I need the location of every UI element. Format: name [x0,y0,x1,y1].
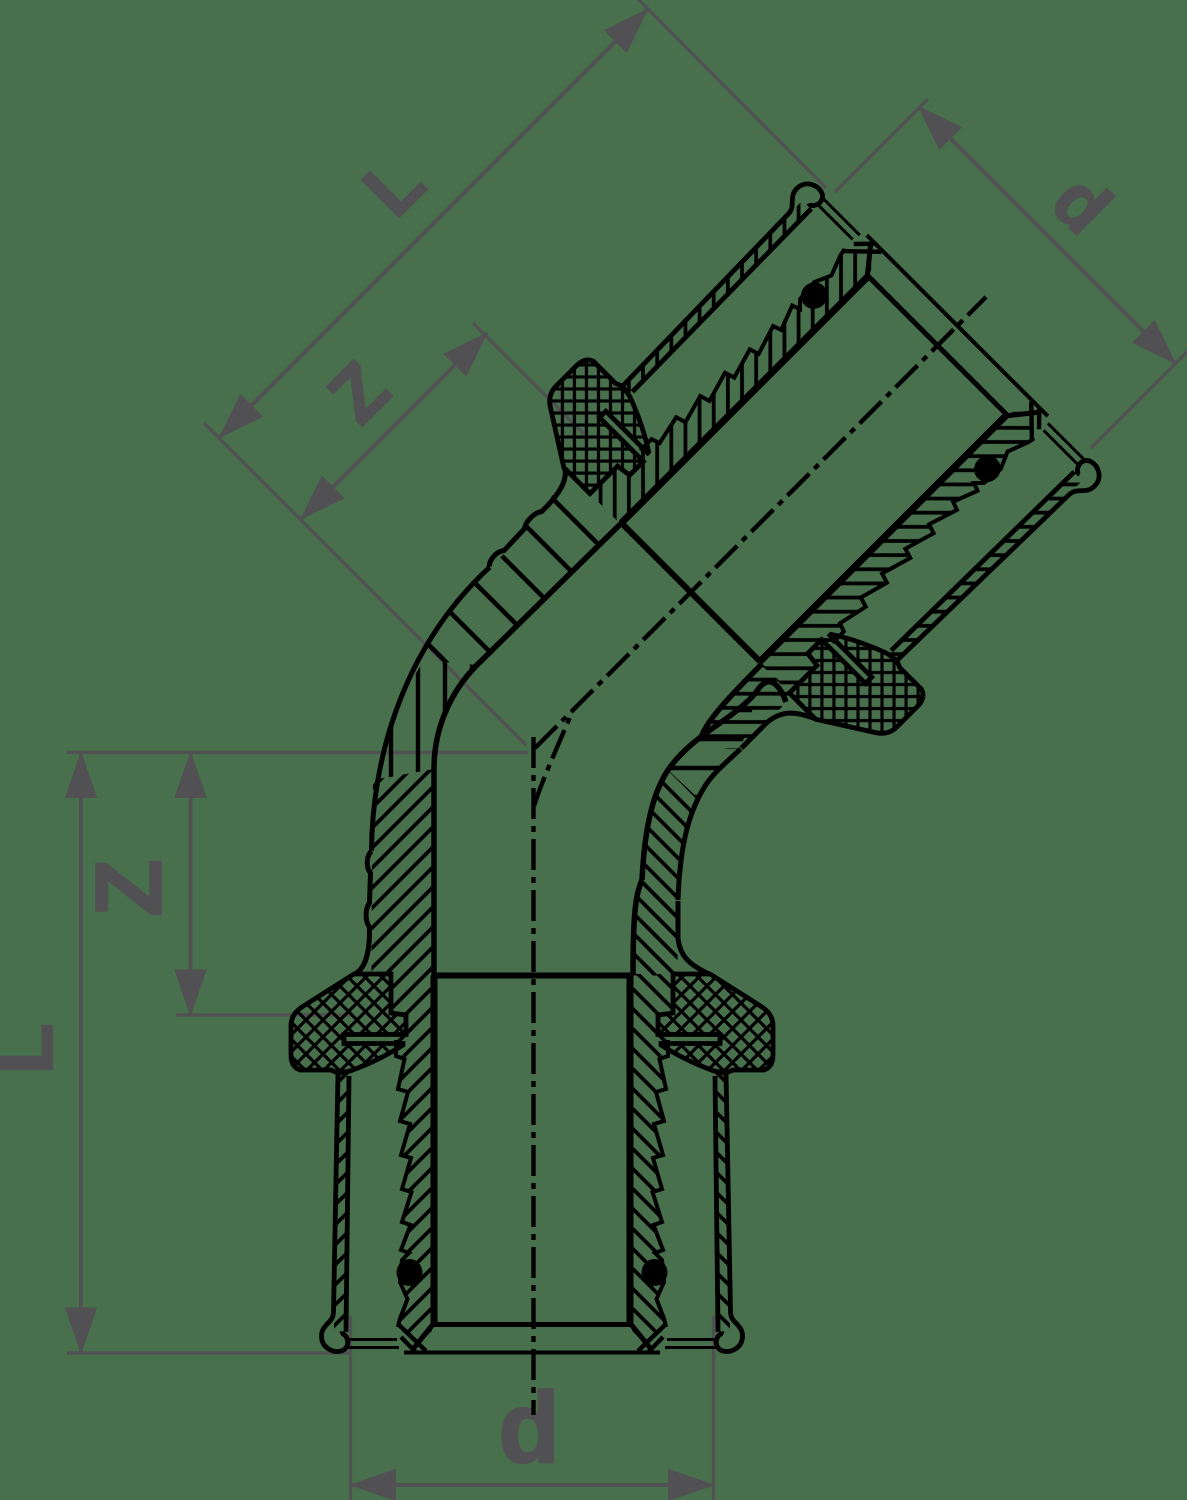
svg-text:Z: Z [76,859,181,916]
svg-text:d: d [498,1372,559,1484]
svg-text:L: L [0,1023,70,1074]
